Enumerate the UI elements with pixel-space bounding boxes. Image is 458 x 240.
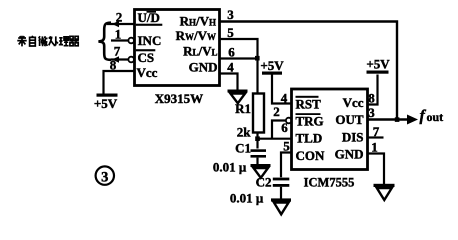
svg-text:+5V: +5V bbox=[94, 96, 118, 111]
U1 pin label U/D bbox=[138, 10, 160, 25]
svg-text:4: 4 bbox=[281, 91, 288, 106]
svg-text:5: 5 bbox=[227, 25, 234, 40]
+5V supply bar (left) bbox=[97, 94, 118, 97]
wire C2 to ground bbox=[280, 187, 282, 199]
svg-text:Vcc: Vcc bbox=[343, 95, 364, 110]
ground symbol under C1 bbox=[251, 164, 271, 178]
svg-text:CS: CS bbox=[138, 50, 155, 65]
U1 underline below U/D bbox=[136, 24, 163, 26]
svg-text:+5V: +5V bbox=[366, 57, 390, 72]
svg-text:GND: GND bbox=[335, 147, 364, 162]
svg-text:3: 3 bbox=[368, 105, 375, 120]
svg-text:5: 5 bbox=[283, 139, 290, 154]
capacitor C1 plates bbox=[251, 149, 267, 157]
svg-text:2k: 2k bbox=[237, 125, 252, 140]
svg-text:6: 6 bbox=[228, 45, 235, 60]
svg-text:C1: C1 bbox=[235, 141, 251, 156]
svg-text:f: f bbox=[420, 108, 427, 125]
svg-text:TLD: TLD bbox=[296, 131, 323, 146]
wire U/D input bbox=[107, 23, 135, 25]
IC U1 X9315W body bbox=[135, 10, 220, 86]
resistor R1 body bbox=[253, 94, 264, 133]
svg-text:RW/VW: RW/VW bbox=[176, 28, 216, 43]
svg-text:TRG: TRG bbox=[296, 114, 324, 129]
wire DIS stub bbox=[368, 136, 384, 138]
svg-text:1: 1 bbox=[115, 27, 122, 42]
svg-text:3: 3 bbox=[227, 7, 234, 22]
svg-text:OUT: OUT bbox=[335, 112, 364, 127]
svg-text:RL/VL: RL/VL bbox=[183, 44, 217, 59]
svg-text:C2: C2 bbox=[256, 175, 272, 190]
ground symbol under U1 pin4 bbox=[228, 90, 248, 104]
svg-text:X9315W: X9315W bbox=[155, 91, 203, 106]
wire RL/VL joins wiper node bbox=[220, 57, 258, 59]
arrowhead on U/D wire bbox=[112, 21, 119, 27]
ground symbol under U2 GND bbox=[374, 184, 395, 200]
wire Vcc pin8 to +5V bbox=[104, 71, 135, 94]
svg-text:CON: CON bbox=[296, 148, 326, 163]
wire +5V to RST pin4 bbox=[272, 75, 292, 104]
figure number circled 3 bbox=[96, 166, 114, 185]
svg-text:7: 7 bbox=[114, 44, 121, 59]
svg-text:0.01 μ: 0.01 μ bbox=[230, 191, 264, 206]
+5V supply bar (middle, to RST) bbox=[262, 72, 282, 75]
svg-text:1: 1 bbox=[371, 140, 378, 155]
+5V supply bar (right) bbox=[367, 71, 389, 74]
wire GND pin1 to ground bbox=[368, 154, 385, 185]
wire CS input bbox=[111, 58, 128, 60]
U2 pin label TRG bbox=[296, 113, 324, 128]
arrowhead fout bbox=[407, 115, 418, 125]
label: from microprocessor (Chinese) bbox=[17, 36, 79, 47]
wire node to TLD pin6 bbox=[258, 138, 292, 140]
brace for microprocessor signals bbox=[99, 23, 112, 60]
svg-text:out: out bbox=[427, 110, 444, 124]
svg-text:8: 8 bbox=[368, 91, 375, 106]
inversion bubble CS pin bbox=[128, 57, 134, 63]
svg-text:RH/VH: RH/VH bbox=[180, 13, 216, 28]
svg-text:0.01 μ: 0.01 μ bbox=[213, 160, 247, 175]
ground symbol under C2 bbox=[271, 198, 291, 214]
svg-text:+5V: +5V bbox=[260, 58, 284, 73]
capacitor C2 plates bbox=[273, 178, 290, 187]
wire INC input bbox=[111, 39, 128, 41]
svg-text:GND: GND bbox=[189, 60, 218, 75]
U1 pin label CS bbox=[136, 49, 156, 65]
svg-text:INC: INC bbox=[138, 33, 162, 48]
junction RL/RW node bbox=[255, 56, 260, 61]
svg-text:6: 6 bbox=[281, 120, 288, 135]
wire R1 bottom to C1 and TLD node bbox=[256, 133, 258, 149]
inversion bubble INC pin bbox=[128, 38, 134, 44]
wire Vcc pin8 to +5V (right) bbox=[368, 75, 378, 105]
svg-text:2: 2 bbox=[273, 104, 280, 119]
junction OUT node bbox=[395, 117, 400, 122]
IC U2 ICM7555 body bbox=[292, 89, 368, 170]
svg-text:4: 4 bbox=[227, 60, 234, 75]
wire CON pin5 to C2 bbox=[281, 153, 292, 178]
junction R1/C1/TLD node bbox=[255, 136, 260, 141]
wire GND pin4 down bbox=[220, 74, 238, 91]
svg-text:RST: RST bbox=[296, 97, 322, 112]
svg-text:Vcc: Vcc bbox=[137, 65, 158, 80]
wire TRG jog to node bbox=[272, 121, 286, 139]
wire RW/VW down to R1 top bbox=[220, 39, 258, 94]
wire C1 to ground bbox=[256, 158, 258, 165]
svg-text:3: 3 bbox=[101, 169, 108, 185]
svg-text:ICM7555: ICM7555 bbox=[304, 176, 355, 190]
svg-text:R1: R1 bbox=[235, 101, 251, 116]
wire RH/VH to fout node (top) bbox=[220, 22, 398, 120]
inversion bubble TRG pin bbox=[286, 118, 292, 124]
wire OUT pin3 to fout bbox=[368, 118, 409, 120]
svg-text:DIS: DIS bbox=[342, 130, 364, 145]
arrowhead on CS wire bbox=[112, 56, 119, 62]
U2 pin label RST bbox=[296, 96, 322, 112]
